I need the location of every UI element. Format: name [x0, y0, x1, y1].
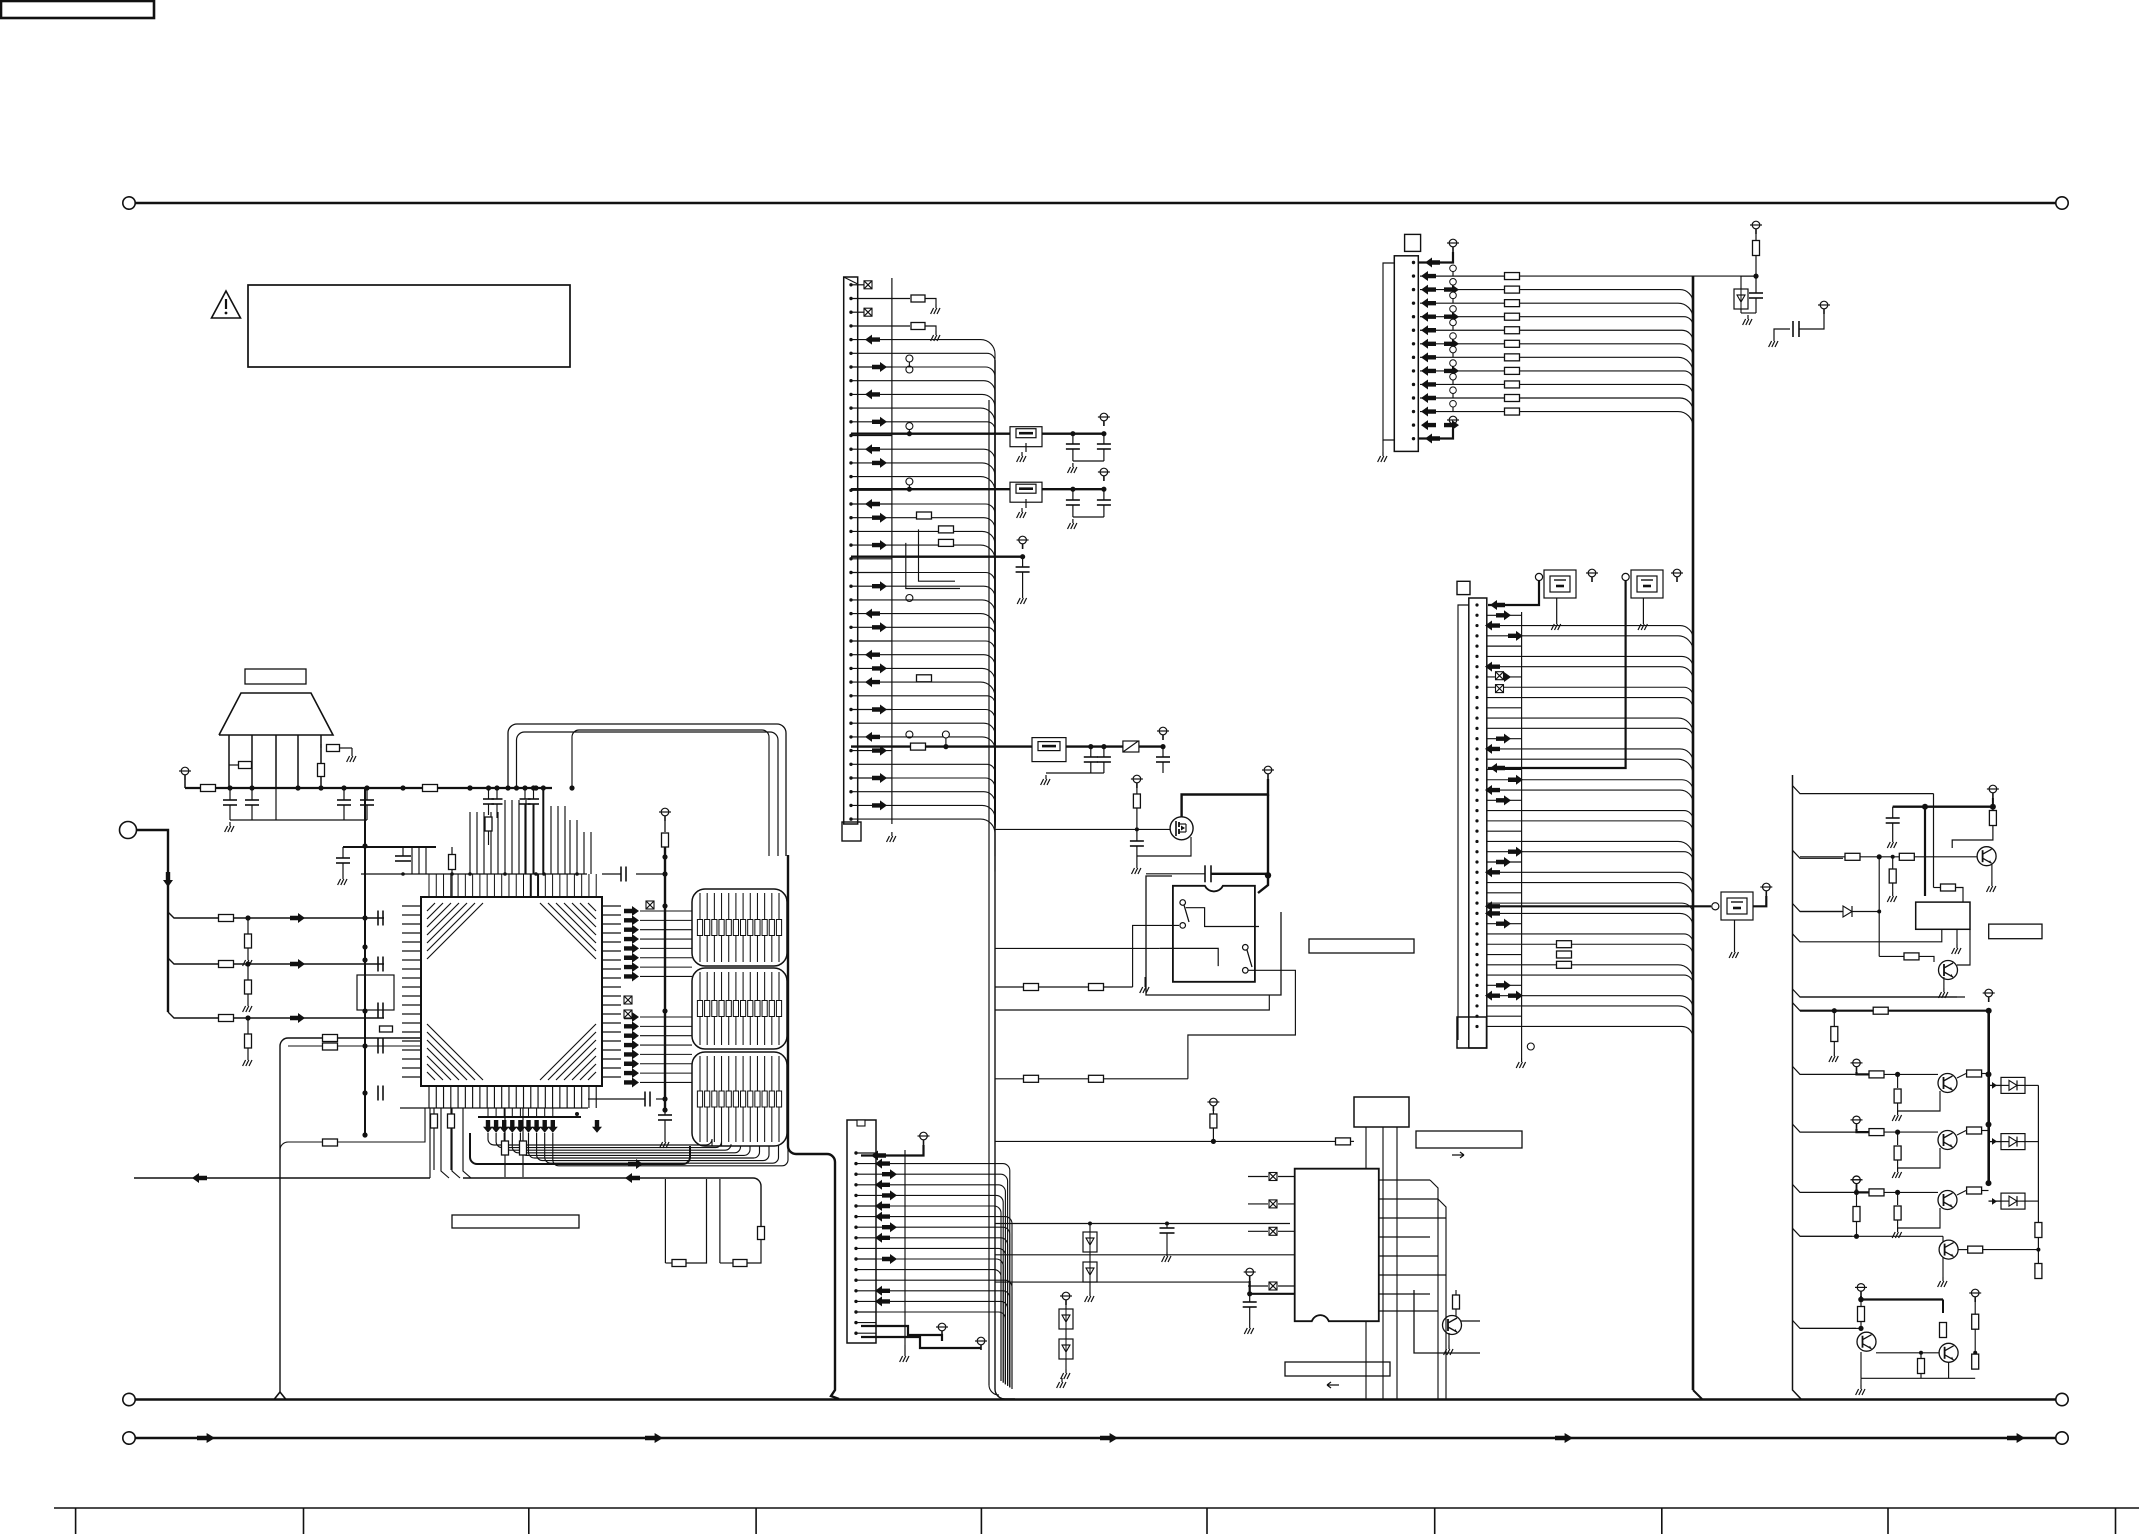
ground	[351, 752, 353, 756]
arrow glyph right	[1452, 1152, 1464, 1158]
ground	[1942, 1277, 1944, 1281]
power flag U2	[1246, 1268, 1254, 1276]
capacitor C20 series	[1146, 873, 1205, 875]
power flag cap	[1820, 301, 1828, 309]
power flag A	[1100, 413, 1108, 421]
arch wire outline C	[572, 730, 769, 856]
thick vdd bus right of MCU	[664, 847, 666, 1112]
wire sense row 3	[995, 1078, 1188, 1080]
ground	[1045, 775, 1047, 779]
bus junction dots	[401, 872, 405, 876]
resistor R56	[485, 817, 492, 831]
wire pair base link	[1876, 1352, 1939, 1354]
resistor R2	[318, 764, 325, 777]
resistor R42	[1968, 1246, 1983, 1253]
resistor R40	[2035, 1223, 2042, 1238]
resistor R32	[1899, 853, 1914, 860]
resistor R37	[1833, 1011, 1835, 1026]
capacitor C12	[1103, 434, 1105, 444]
capacitor C10 to ground	[664, 1112, 666, 1115]
bead CN6 row a	[1496, 672, 1504, 680]
zener pair D2	[1065, 1305, 1067, 1309]
bundle bends to MCU bottom-left	[429, 1108, 431, 1178]
resistor bank CN6	[1557, 941, 1572, 948]
junction dots on power rail	[227, 785, 232, 790]
resistor R44	[1940, 1323, 1947, 1338]
ground	[1747, 315, 1749, 319]
wire input row 2	[168, 958, 384, 964]
battery module B2	[1631, 570, 1663, 598]
resistor R17	[939, 539, 954, 546]
resistor R53	[431, 1114, 438, 1128]
connector CN3 pin wires	[851, 284, 864, 286]
power flag CN4-2	[938, 1323, 946, 1331]
wire long return	[134, 1177, 430, 1179]
bottom bus terminal right	[2056, 1393, 2068, 1405]
resistor R51	[323, 1139, 338, 1146]
resistor R54	[448, 1114, 455, 1128]
capacitor C23	[1755, 276, 1757, 293]
arch wire outline B	[517, 732, 779, 856]
capacitor C14	[1103, 489, 1105, 500]
label box bottom	[1285, 1362, 1390, 1376]
transistor stage	[1938, 1191, 1957, 1210]
wire base row Q1	[1800, 856, 1977, 858]
connector CN3 pins	[849, 283, 852, 286]
junction dots power row right	[467, 785, 472, 790]
wire sense row 2	[995, 986, 1133, 988]
resistor R5	[423, 785, 438, 792]
cable trunk right	[788, 855, 839, 1399]
resistor R13	[758, 1227, 765, 1240]
wire lower return	[1800, 996, 1957, 998]
ground Q1	[1991, 864, 1993, 882]
ground	[247, 1056, 249, 1060]
beads near MCU right	[624, 996, 632, 1004]
ground	[1556, 598, 1558, 620]
ground	[664, 1138, 666, 1142]
cable bundle CN-B	[692, 968, 787, 1049]
transistor Q6	[1857, 1332, 1876, 1351]
bottom bus 2 terminal right	[2056, 1432, 2068, 1444]
wire riser right	[576, 820, 578, 874]
wire row to U3	[995, 1140, 1335, 1142]
ground	[1072, 463, 1074, 467]
relay RL1 body	[1173, 886, 1255, 982]
output section outline	[1793, 775, 1802, 1399]
capacitor C11	[1072, 434, 1074, 444]
wire branch 1143	[280, 1108, 425, 1150]
top border terminal left	[123, 197, 135, 209]
top border wire	[135, 202, 2056, 205]
rail junction dots	[362, 843, 367, 848]
transistor stage	[1938, 1131, 1957, 1150]
label box mode	[1416, 1131, 1522, 1148]
power flag pair 2	[1971, 1289, 1979, 1297]
resistor R43	[1860, 1300, 1862, 1307]
wire input row 3	[168, 1012, 384, 1018]
terminal circle B1	[1535, 573, 1542, 580]
connector CN3 left arrows	[865, 732, 880, 742]
wire top bend right	[1933, 794, 1935, 888]
ground	[1382, 440, 1384, 452]
crystal label box	[245, 669, 306, 684]
zener pair D1	[1089, 1224, 1091, 1233]
capacitor C18	[1162, 747, 1164, 757]
junction dot	[1858, 1297, 1864, 1303]
ground rail wire	[230, 819, 367, 821]
capacitor C24 series	[1774, 329, 1790, 337]
bottom bus 2 terminal left	[123, 1432, 135, 1444]
wire row U2-b	[995, 1281, 1250, 1283]
connector CN5 tab	[1405, 234, 1421, 251]
thick wire B1 to pin	[1488, 581, 1539, 605]
connector CN3 body	[844, 277, 858, 824]
arrow row 3	[290, 1013, 305, 1023]
thick wire pin17	[861, 1326, 942, 1341]
power flag pair	[1857, 1284, 1865, 1292]
MCU bottom bus wire	[400, 1107, 588, 1109]
resistor stage collector	[1967, 1070, 1982, 1077]
stub network U-shape 2	[719, 1179, 721, 1263]
resistor R41	[2035, 1264, 2042, 1279]
bottom bus wire 1	[135, 1398, 2056, 1401]
power flag CN4-3	[977, 1337, 985, 1345]
bottom bus wire 2	[135, 1437, 2056, 1440]
filter FL1	[1010, 427, 1042, 447]
power flag stage	[1853, 1116, 1861, 1124]
power flag U3	[1210, 1098, 1218, 1106]
resistor R18	[917, 512, 932, 519]
capacitor C13	[1072, 489, 1074, 500]
ground	[1022, 594, 1024, 598]
resistor R21	[1136, 788, 1138, 794]
collect line CN6	[1521, 612, 1523, 1050]
capacitor C17	[1103, 747, 1105, 757]
relay switch SW1 wire	[1186, 908, 1259, 927]
power flag B	[1100, 468, 1108, 476]
wire row Q5	[1800, 1235, 1943, 1237]
resistor R31	[1845, 853, 1860, 860]
connector CN4 pin wires	[856, 1152, 876, 1154]
thick wire pin1	[861, 1145, 924, 1156]
MCU top pin stubs	[428, 874, 430, 897]
resistor R50	[323, 1035, 338, 1042]
capacitor C26 pair	[488, 788, 490, 799]
resistors CN5 rows	[1505, 273, 1520, 280]
MCU right pin stubs	[602, 905, 621, 907]
thick stage feed	[1857, 1189, 1870, 1193]
warning note box	[248, 285, 570, 367]
ground	[1448, 1333, 1450, 1345]
wire to transistor	[1884, 1131, 1938, 1133]
ground	[1897, 1111, 1899, 1115]
connector CN6 wires	[1487, 614, 1522, 616]
ground	[1897, 1168, 1899, 1172]
opto DB1	[2001, 1077, 2025, 1093]
wire input row 1	[168, 912, 384, 918]
capacitor C9	[656, 1098, 665, 1100]
power flag Q-drain	[1264, 766, 1272, 774]
resistor R57	[664, 821, 666, 832]
wire Q2 collector	[1957, 929, 1970, 965]
wire zener rail	[1740, 309, 1742, 313]
ground	[1025, 443, 1027, 452]
junction dots arch	[505, 785, 510, 790]
MCU bottom pin stubs	[428, 1086, 430, 1108]
power flag out1	[1989, 785, 1997, 793]
resistor R1	[239, 762, 252, 769]
connector CN3 right arrows	[872, 746, 887, 756]
capacitor C16	[1090, 747, 1092, 757]
resistor R3	[327, 745, 340, 752]
junction dot	[1895, 1130, 1900, 1135]
warning symbol	[212, 291, 241, 318]
battery module B3	[1721, 892, 1753, 920]
ground	[1773, 337, 1775, 341]
wire Q5 emitter	[1942, 1257, 1944, 1277]
resistor R8	[219, 1015, 234, 1022]
resistor R9 to ground	[247, 918, 249, 934]
resistor R20	[911, 743, 926, 750]
junction dot	[1895, 1072, 1900, 1077]
junction dot thick bus	[1265, 872, 1271, 878]
power flag CN4-1	[920, 1132, 928, 1140]
label box relay	[1309, 939, 1414, 953]
resistor R30	[1992, 807, 1994, 810]
resistor R55	[1453, 1295, 1460, 1309]
thick stage feed	[1857, 1129, 1870, 1132]
connector CN5 body	[1394, 256, 1418, 452]
arrow row 2	[290, 959, 305, 969]
bottom pair rail	[1861, 1377, 1975, 1379]
IC U2 right pin wires	[1379, 1179, 1430, 1181]
connector CN6 bottom box	[1457, 1017, 1487, 1048]
resistor stage bias	[1897, 1192, 1899, 1205]
resistor R36	[1873, 1007, 1888, 1014]
capacitor C27 pair	[524, 788, 526, 799]
resistor R16	[939, 526, 954, 533]
ground	[1144, 977, 1146, 983]
connector CN5 bracket	[1383, 263, 1394, 440]
power flag CN5 top	[1449, 239, 1457, 247]
wire step to switch	[1133, 925, 1179, 987]
ground	[1521, 1050, 1523, 1058]
transistor stage	[1938, 1074, 1957, 1093]
ground	[1089, 1292, 1091, 1296]
relay switch SW2	[1243, 945, 1249, 951]
opto DB2	[2001, 1134, 2025, 1150]
vertical resistors under MCU	[502, 1141, 509, 1155]
thick wire CN5 last	[1418, 429, 1453, 439]
wire cap rail D	[1046, 772, 1104, 774]
small matching box	[357, 975, 394, 1010]
wire Q7 emitter	[1973, 1351, 1977, 1355]
wire relay return	[995, 995, 1269, 1010]
comb risers	[550, 806, 552, 874]
resistor R14 to ground	[851, 298, 910, 300]
wire row mid	[995, 1223, 1290, 1225]
ground	[247, 1002, 249, 1006]
wires MCU arrows to cable C	[640, 1016, 692, 1018]
wire sense row 1	[995, 947, 1160, 949]
wire return segment 2	[463, 1178, 761, 1226]
power flag gate bias	[1133, 775, 1141, 783]
terminal circle B2	[1622, 573, 1629, 580]
power flag stage	[1853, 1059, 1861, 1067]
thick bundle exit wire	[470, 1133, 690, 1164]
resistor R6	[219, 915, 234, 922]
bundle turn wires	[488, 1133, 712, 1146]
junction dots row D	[1088, 744, 1093, 749]
filter FL3	[1032, 738, 1066, 762]
resistor R24	[1024, 1075, 1039, 1082]
battery module B1	[1544, 570, 1576, 598]
trunk bus wires	[988, 400, 990, 1385]
MCU U1 body	[421, 897, 602, 1086]
wire row U2-a	[995, 1254, 1295, 1256]
wire cap rail A	[1073, 460, 1104, 462]
ground	[1734, 920, 1736, 948]
driver box U4	[1916, 902, 1970, 929]
footer rule	[54, 1507, 2139, 1509]
footer column ticks	[75, 1508, 77, 1534]
capacitor C4	[366, 788, 368, 800]
junction dot	[1832, 1008, 1837, 1013]
thick wire CN5 pin1	[1418, 252, 1453, 263]
power flag D2	[1062, 1292, 1070, 1300]
power flag bus	[661, 808, 669, 816]
connector CN4 body	[847, 1120, 876, 1343]
filter FL2	[1010, 482, 1042, 502]
junction dots	[1922, 804, 1928, 810]
arch wire outline A	[508, 724, 786, 856]
wire relay feed	[1258, 875, 1268, 893]
connector CN5 arrows	[1421, 271, 1436, 281]
power flag VCC1	[181, 767, 189, 775]
ground	[1956, 929, 1958, 944]
supply row A wire	[851, 433, 1104, 435]
ground	[1860, 1378, 1862, 1385]
ground	[1065, 1369, 1067, 1373]
arrow glyph left	[1327, 1382, 1339, 1388]
ground	[1642, 598, 1644, 620]
supply row D wire	[851, 745, 1163, 747]
junction dot	[1020, 554, 1025, 559]
label box under MCU	[452, 1215, 579, 1228]
resistor stage base	[1869, 1129, 1884, 1136]
wire to transistor	[1884, 1073, 1938, 1075]
connector CN6 bracket	[1458, 605, 1469, 1040]
resistor R26	[1336, 1138, 1351, 1145]
ground	[1892, 892, 1894, 896]
capacitor C5	[342, 847, 344, 858]
capacitor C19	[1136, 829, 1138, 841]
connector CN6 body	[1469, 598, 1487, 1048]
connector CN6 pins	[1475, 603, 1478, 606]
MOSFET Q10	[1170, 817, 1193, 840]
ground Q2	[1943, 977, 1945, 988]
ground	[904, 1345, 906, 1352]
ground	[229, 822, 231, 826]
power flag CN5 bottom	[1449, 416, 1457, 424]
wire CN5 row1 long	[1420, 275, 1505, 277]
no-connect circles	[906, 355, 913, 362]
capacitor C3	[343, 788, 345, 800]
ground	[247, 956, 249, 960]
MCU left pin stubs	[402, 905, 421, 907]
left bias resistor s4	[1853, 1176, 1861, 1184]
top border terminal right	[2056, 197, 2068, 209]
thick wire to box	[1924, 807, 1926, 896]
resistor R23	[1089, 984, 1104, 991]
stub network U-shape 1	[664, 1179, 666, 1263]
IC U3 box	[1354, 1097, 1409, 1127]
resistor stage bias	[1897, 1132, 1899, 1145]
ground	[1061, 1378, 1063, 1382]
wires CN5 to trunk	[1420, 275, 1505, 277]
power rail wire	[184, 780, 186, 788]
capacitor C6	[402, 847, 404, 856]
trunk bus right	[1692, 276, 1695, 1390]
resistor stage collector	[1967, 1127, 1982, 1134]
resistor R25	[1089, 1075, 1104, 1082]
capacitor C7 series	[620, 867, 622, 882]
supply row B wire	[851, 488, 1104, 490]
IC U2 body	[1295, 1169, 1379, 1322]
crystal pins	[228, 735, 230, 788]
resistor R46	[1974, 1302, 1976, 1314]
power flag D	[1159, 727, 1167, 735]
wire cap rail B	[1073, 516, 1104, 518]
resistor R33	[1889, 869, 1896, 883]
arrow input down	[163, 872, 173, 887]
junction dot	[245, 1015, 250, 1020]
arrow return left	[192, 1173, 207, 1183]
cable bundle CN-A	[692, 889, 787, 966]
ground	[1897, 1228, 1899, 1232]
wire to transistor	[1884, 1191, 1938, 1193]
collect line CN4	[904, 1150, 906, 1345]
power flag B2	[1673, 569, 1681, 577]
junction dot	[245, 961, 250, 966]
vertical feed wires above MCU	[504, 800, 506, 874]
resistor R10 to ground	[247, 964, 249, 980]
resistor R47	[1972, 1354, 1979, 1369]
ground	[1136, 864, 1138, 868]
thick wire B2 to pin	[1488, 581, 1626, 768]
diode D4	[1800, 911, 1842, 913]
resistor R22	[1024, 984, 1039, 991]
resistor R15 to ground	[851, 325, 910, 327]
ground	[1166, 1252, 1168, 1256]
MCU top bus wire	[361, 873, 587, 875]
zener D3	[1734, 289, 1748, 309]
ground	[1072, 519, 1074, 523]
connector CN4 pins	[854, 1151, 857, 1154]
cap rail top wire	[343, 846, 436, 848]
outline stub wires	[1793, 786, 1934, 794]
stepped sense wires	[906, 543, 960, 589]
thick pair rail	[1860, 1296, 1862, 1300]
thick wire pin18	[861, 1337, 981, 1348]
power flag R-top	[1752, 221, 1760, 229]
capacitor C1	[229, 788, 231, 800]
resistor stage base	[1869, 1189, 1884, 1196]
ground	[1249, 1324, 1251, 1328]
IC U3 pin wires	[1365, 1127, 1367, 1141]
wire vertical join	[1878, 857, 1880, 957]
